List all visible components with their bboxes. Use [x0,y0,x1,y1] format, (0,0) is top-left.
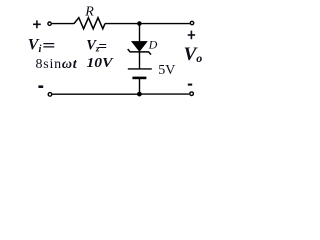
terminal (top-right open circle) [190,21,193,24]
zener diode D (triangle + bent cathode bar) [128,41,151,54]
wire (top-left terminal to resistor) [52,23,74,25]
resistor R (zigzag) [74,18,105,29]
svg-text:R: R [84,5,94,20]
svg-text:D: D [148,38,158,52]
wire (resistor to node A) [105,23,139,25]
wire (node A down to zener anode) [139,24,141,43]
wire (node A to top-right terminal) [139,23,189,25]
wire (bottom rail, left terminal to node B) [52,93,139,95]
minus sign of output port Vo [188,84,192,86]
battery 5V long plate (positive) [128,68,152,70]
svg-text:=: = [98,39,107,55]
plus sign of output port Vo [188,31,195,40]
terminal (bottom-left open circle) [48,93,52,97]
svg-text:8sinωt: 8sinωt [36,57,78,72]
wire (bottom rail, node B to bottom-right terminal) [139,93,189,95]
svg-text:5V: 5V [158,63,175,78]
battery 5V short plate (negative) [132,77,146,80]
node A (top junction dot) [137,21,142,26]
svg-text:10V: 10V [87,55,114,70]
wire (zener cathode to battery top plate) [139,52,141,69]
plus sign of input port Vi [33,20,41,28]
wire (battery to node B) [139,78,141,94]
minus sign of input port Vi [38,85,43,88]
terminal (bottom-right open circle) [190,92,194,96]
node B (bottom junction dot) [137,92,142,97]
terminal (top-left open circle) [48,22,51,25]
svg-text:=: = [42,36,55,55]
